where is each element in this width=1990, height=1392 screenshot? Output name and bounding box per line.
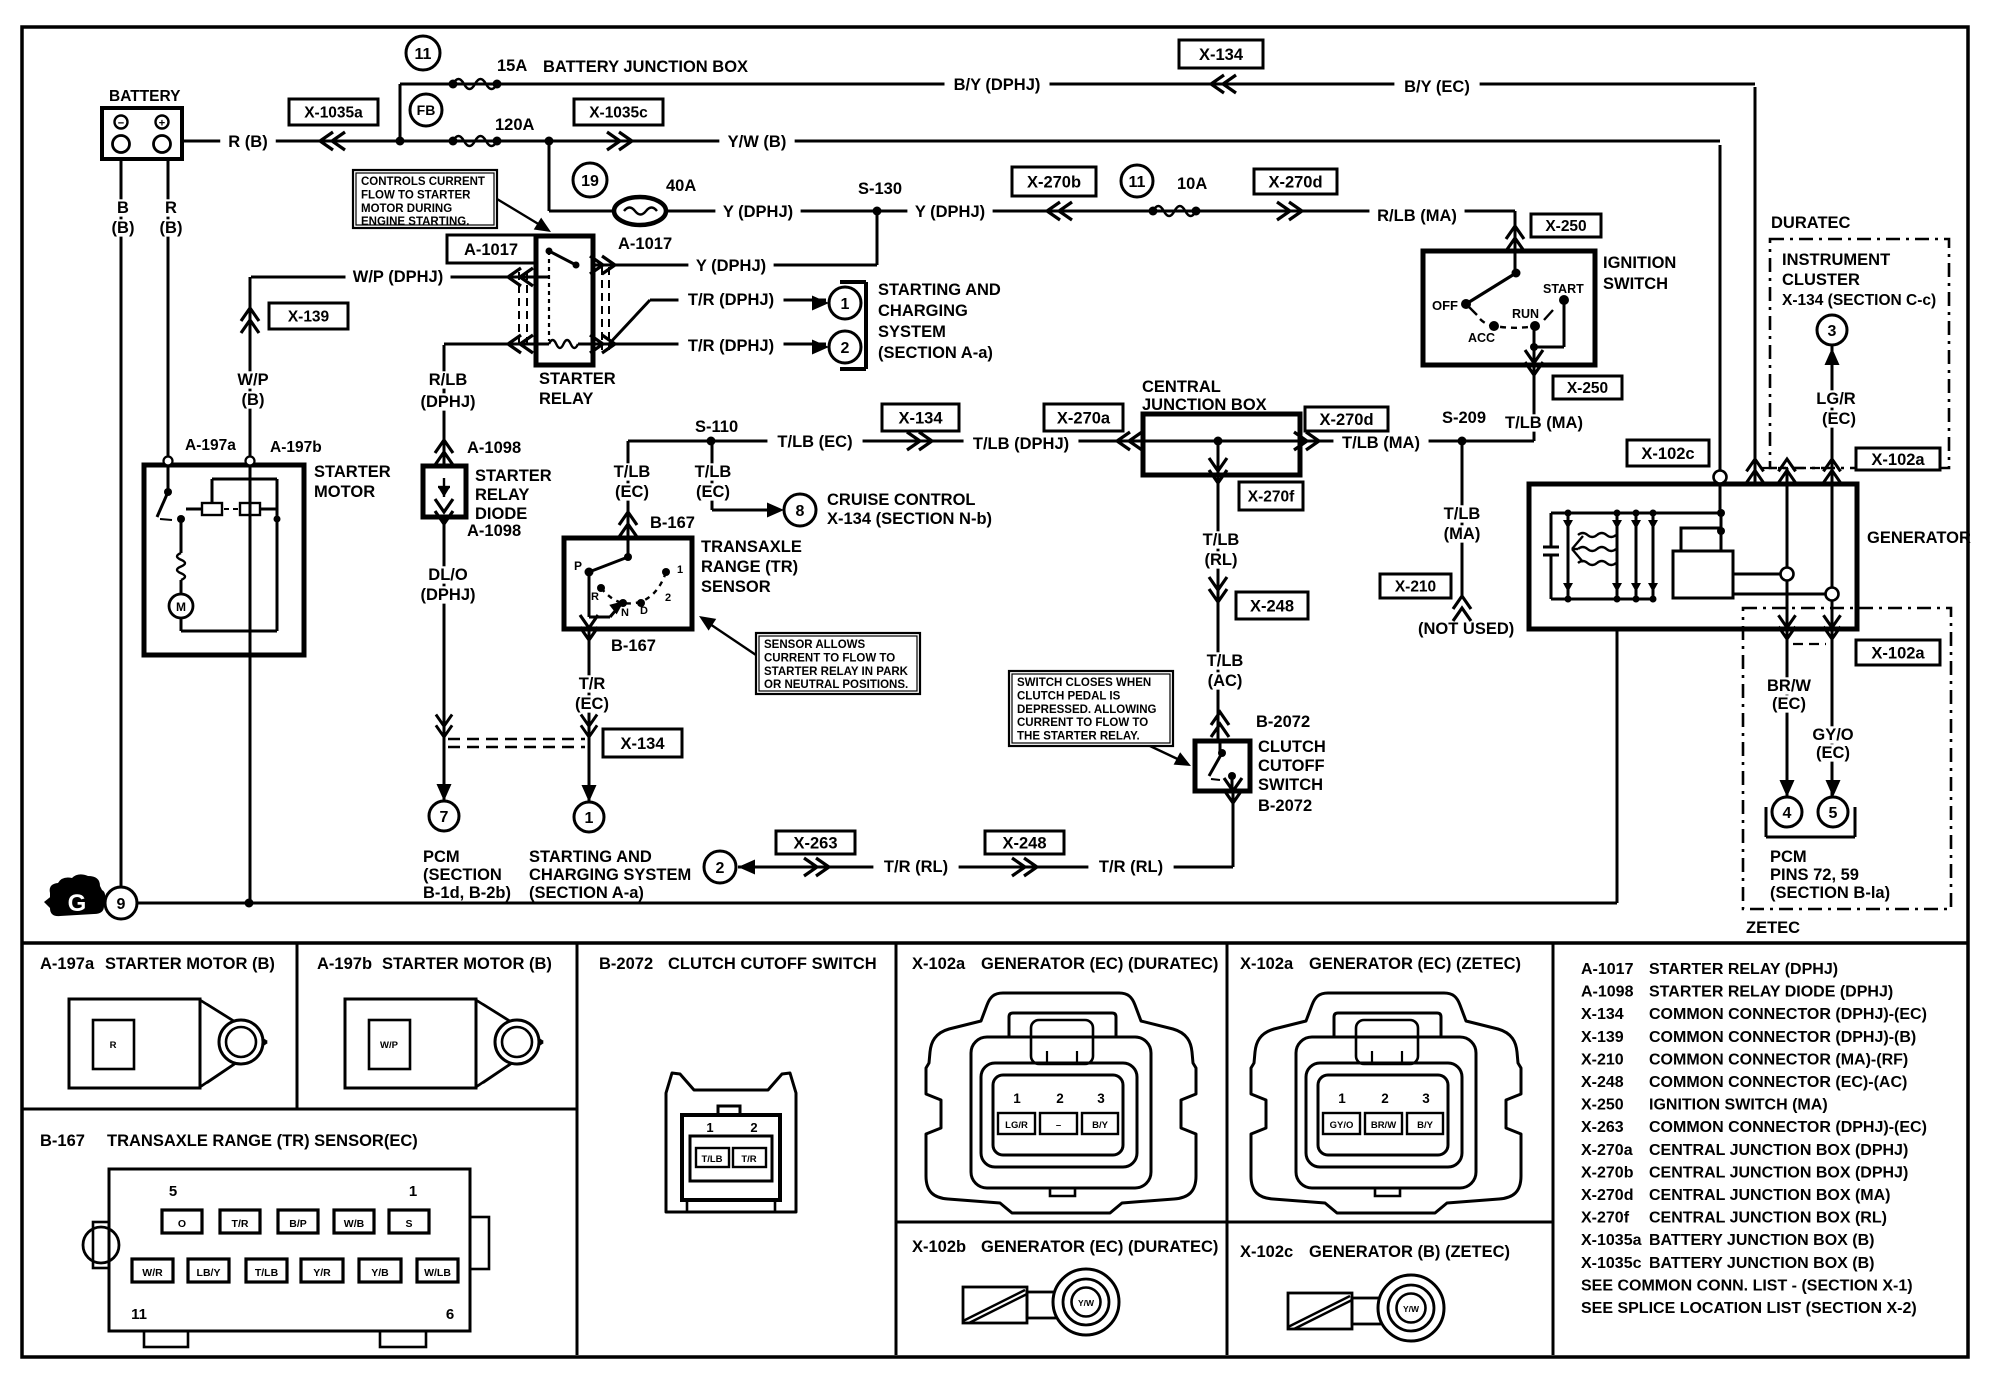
svg-text:(EC): (EC) [1772,695,1806,713]
svg-text:X-102a: X-102a [912,955,966,973]
svg-text:BR/W: BR/W [1767,677,1811,695]
svg-text:R/LB: R/LB [429,371,468,389]
svg-text:R: R [591,591,599,603]
svg-text:X-248: X-248 [1002,834,1046,852]
svg-text:7: 7 [440,809,449,826]
svg-text:CHARGING SYSTEM: CHARGING SYSTEM [529,866,691,884]
svg-text:W/B: W/B [344,1218,365,1230]
svg-text:11: 11 [415,46,432,63]
svg-text:T/LB: T/LB [255,1267,279,1279]
svg-text:B/Y: B/Y [1417,1120,1434,1131]
svg-text:Y/W: Y/W [1403,1304,1420,1314]
svg-text:(B): (B) [242,391,265,409]
svg-text:COMMON CONNECTOR (DPHJ)-(B): COMMON CONNECTOR (DPHJ)-(B) [1649,1029,1916,1046]
svg-text:B-167: B-167 [611,637,656,655]
svg-text:T/LB: T/LB [614,463,651,481]
svg-text:CLUTCH: CLUTCH [1258,738,1326,756]
svg-text:LG/R: LG/R [1816,390,1855,408]
svg-text:BATTERY JUNCTION BOX (B): BATTERY JUNCTION BOX (B) [1649,1232,1874,1249]
svg-text:X-270f: X-270f [1581,1210,1630,1227]
svg-text:3: 3 [1828,323,1837,340]
svg-text:1: 1 [585,810,594,827]
svg-text:LB/Y: LB/Y [197,1267,221,1279]
svg-text:DURATEC: DURATEC [1771,214,1851,232]
svg-text:X-263: X-263 [793,834,837,852]
svg-text:1: 1 [677,564,683,576]
svg-text:T/LB: T/LB [701,1154,722,1165]
svg-text:THE STARTER RELAY.: THE STARTER RELAY. [1017,731,1140,743]
svg-text:2: 2 [1381,1091,1389,1106]
svg-text:X-270d: X-270d [1581,1187,1633,1204]
svg-text:X-250: X-250 [1581,1097,1624,1114]
svg-text:OR NEUTRAL POSITIONS.: OR NEUTRAL POSITIONS. [764,679,908,691]
svg-text:X-248: X-248 [1581,1074,1624,1091]
svg-text:B/Y: B/Y [1092,1120,1109,1131]
svg-text:X-102c: X-102c [1641,445,1694,463]
svg-text:SEE COMMON CONN. LIST - (SECTI: SEE COMMON CONN. LIST - (SECTION X-1) [1581,1277,1913,1294]
svg-text:GY/O: GY/O [1812,726,1853,744]
svg-text:DEPRESSED. ALLOWING: DEPRESSED. ALLOWING [1017,704,1157,716]
svg-text:X-134 (SECTION N-b): X-134 (SECTION N-b) [827,510,992,528]
svg-text:T/R (RL): T/R (RL) [884,858,948,876]
svg-text:N: N [621,607,629,619]
svg-text:A-1017: A-1017 [1581,961,1634,978]
svg-text:T/R (DPHJ): T/R (DPHJ) [688,291,774,309]
svg-text:R: R [165,199,177,217]
svg-text:X-270b: X-270b [1581,1164,1634,1181]
svg-text:3: 3 [1097,1091,1105,1106]
svg-text:19: 19 [581,173,599,190]
svg-text:3: 3 [1422,1091,1430,1106]
svg-text:X-102b: X-102b [912,1238,966,1256]
svg-text:X-1035a: X-1035a [304,105,363,122]
svg-text:T/LB (DPHJ): T/LB (DPHJ) [973,435,1069,453]
svg-text:SENSOR: SENSOR [701,578,771,596]
svg-text:R/LB (MA): R/LB (MA) [1377,207,1457,225]
svg-text:ZETEC: ZETEC [1746,919,1800,937]
svg-text:A-1017: A-1017 [464,241,518,259]
svg-text:10A: 10A [1177,175,1207,193]
svg-text:BATTERY: BATTERY [109,88,181,105]
svg-text:X-102a: X-102a [1871,451,1925,469]
svg-text:A-1098: A-1098 [467,522,521,540]
svg-text:CLUSTER: CLUSTER [1782,271,1860,289]
svg-text:SENSOR ALLOWS: SENSOR ALLOWS [764,639,865,651]
svg-text:X-210: X-210 [1581,1051,1624,1068]
svg-text:A-197b: A-197b [317,955,372,973]
svg-text:X-270b: X-270b [1027,173,1081,191]
svg-text:X-134: X-134 [898,409,943,427]
svg-text:STARTER: STARTER [475,467,552,485]
svg-text:SWITCH CLOSES WHEN: SWITCH CLOSES WHEN [1017,677,1151,689]
svg-text:B-167: B-167 [650,514,695,532]
svg-text:9: 9 [117,896,126,913]
svg-text:W/P: W/P [380,1040,399,1051]
svg-text:A-1098: A-1098 [1581,984,1634,1001]
svg-text:COMMON CONNECTOR (DPHJ)-(EC): COMMON CONNECTOR (DPHJ)-(EC) [1649,1006,1927,1023]
svg-text:CENTRAL JUNCTION BOX (MA): CENTRAL JUNCTION BOX (MA) [1649,1187,1890,1204]
svg-text:(AC): (AC) [1208,672,1243,690]
svg-text:BATTERY JUNCTION BOX: BATTERY JUNCTION BOX [543,58,748,76]
svg-text:B-1d, B-2b): B-1d, B-2b) [423,884,511,902]
svg-text:1: 1 [841,296,850,313]
svg-text:BR/W: BR/W [1371,1120,1396,1131]
svg-text:T/R (RL): T/R (RL) [1099,858,1163,876]
svg-text:X-134: X-134 [1581,1006,1624,1023]
svg-text:T/R: T/R [232,1218,249,1230]
svg-text:CHARGING: CHARGING [878,302,968,320]
svg-text:A-1098: A-1098 [467,439,521,457]
svg-text:(EC): (EC) [696,483,730,501]
svg-text:S: S [405,1218,412,1230]
svg-text:CENTRAL JUNCTION BOX (DPHJ): CENTRAL JUNCTION BOX (DPHJ) [1649,1142,1908,1159]
svg-text:GENERATOR (EC) (DURATEC): GENERATOR (EC) (DURATEC) [981,1238,1218,1256]
svg-text:(EC): (EC) [615,483,649,501]
svg-text:−: − [118,118,124,130]
svg-text:2: 2 [716,860,725,877]
svg-text:1: 1 [706,1120,713,1135]
svg-text:RELAY: RELAY [475,486,529,504]
svg-text:T/LB (EC): T/LB (EC) [777,433,852,451]
svg-text:X-270a: X-270a [1057,409,1111,427]
svg-text:CUTOFF: CUTOFF [1258,757,1325,775]
svg-text:OFF: OFF [1432,298,1458,313]
svg-text:B-2072: B-2072 [599,955,653,973]
svg-text:W/P: W/P [237,371,268,389]
svg-text:T/LB: T/LB [1444,505,1481,523]
svg-text:INSTRUMENT: INSTRUMENT [1782,251,1890,269]
svg-text:SEE SPLICE LOCATION LIST (SECT: SEE SPLICE LOCATION LIST (SECTION X-2) [1581,1300,1917,1317]
svg-text:(DPHJ): (DPHJ) [420,393,475,411]
svg-text:+: + [159,118,165,130]
svg-text:BATTERY JUNCTION BOX (B): BATTERY JUNCTION BOX (B) [1649,1255,1874,1272]
svg-text:TRANSAXLE: TRANSAXLE [701,538,802,556]
svg-text:X-248: X-248 [1250,597,1294,615]
svg-text:X-270f: X-270f [1248,489,1295,506]
svg-text:RELAY: RELAY [539,390,593,408]
svg-text:2: 2 [665,592,671,604]
svg-text:CENTRAL JUNCTION BOX (DPHJ): CENTRAL JUNCTION BOX (DPHJ) [1649,1164,1908,1181]
svg-text:11: 11 [1129,174,1146,191]
svg-text:TRANSAXLE RANGE (TR) SENSOR(E: TRANSAXLE RANGE (TR) SENSOR(EC) [107,1132,418,1150]
svg-text:S-110: S-110 [695,418,738,436]
svg-text:X-263: X-263 [1581,1119,1624,1136]
svg-text:STARTER: STARTER [539,370,616,388]
svg-text:5: 5 [169,1183,177,1200]
svg-text:CURRENT TO FLOW TO: CURRENT TO FLOW TO [764,652,895,664]
svg-text:X-210: X-210 [1395,579,1436,596]
svg-text:(SECTION: (SECTION [423,866,502,884]
svg-text:P: P [574,559,582,573]
svg-text:(B): (B) [160,219,183,237]
svg-text:–: – [1056,1120,1061,1131]
svg-text:(B): (B) [112,219,135,237]
svg-text:START: START [1543,282,1584,296]
svg-text:GENERATOR (EC) (DURATEC): GENERATOR (EC) (DURATEC) [981,955,1218,973]
svg-text:CURRENT TO FLOW TO: CURRENT TO FLOW TO [1017,717,1148,729]
svg-text:COMMON CONNECTOR (EC)-(AC): COMMON CONNECTOR (EC)-(AC) [1649,1074,1907,1091]
svg-text:X-270a: X-270a [1581,1142,1633,1159]
svg-text:Y/R: Y/R [313,1267,331,1279]
svg-text:RUN: RUN [1512,307,1539,321]
svg-text:X-139: X-139 [288,309,330,326]
svg-text:M: M [176,600,186,614]
svg-text:(EC): (EC) [575,695,609,713]
svg-text:T/LB: T/LB [695,463,732,481]
svg-text:STARTER MOTOR (B): STARTER MOTOR (B) [382,955,552,973]
svg-text:2: 2 [841,340,850,357]
svg-text:STARTING AND: STARTING AND [878,281,1001,299]
svg-text:5: 5 [1829,805,1838,822]
svg-text:LG/R: LG/R [1005,1120,1028,1131]
svg-text:GY/O: GY/O [1330,1120,1354,1131]
svg-text:B: B [117,199,129,217]
svg-text:1: 1 [409,1183,417,1200]
svg-text:(SECTION A-a): (SECTION A-a) [878,344,993,362]
svg-text:40A: 40A [666,177,696,195]
svg-text:SYSTEM: SYSTEM [878,323,946,341]
svg-text:15A: 15A [497,57,527,75]
svg-text:120A: 120A [495,116,535,134]
svg-text:(SECTION A-a): (SECTION A-a) [529,884,644,902]
svg-text:1: 1 [1013,1091,1021,1106]
svg-text:1: 1 [1338,1091,1346,1106]
svg-text:(SECTION B-la): (SECTION B-la) [1770,884,1890,902]
svg-text:D: D [640,605,648,617]
svg-text:DL/O: DL/O [428,566,468,584]
svg-text:X-102a: X-102a [1871,644,1925,662]
svg-text:A-197a: A-197a [185,437,236,454]
svg-text:2: 2 [750,1120,757,1135]
svg-text:PCM: PCM [423,848,460,866]
svg-text:CENTRAL JUNCTION BOX (RL): CENTRAL JUNCTION BOX (RL) [1649,1210,1887,1227]
svg-text:CLUTCH CUTOFF SWITCH: CLUTCH CUTOFF SWITCH [668,955,877,973]
svg-text:Y (DPHJ): Y (DPHJ) [723,203,793,221]
svg-text:STARTER RELAY DIODE (DPHJ): STARTER RELAY DIODE (DPHJ) [1649,984,1893,1001]
svg-text:A-197a: A-197a [40,955,95,973]
svg-text:(EC): (EC) [1822,410,1856,428]
svg-text:B/Y (EC): B/Y (EC) [1404,78,1470,96]
svg-text:B-2072: B-2072 [1256,713,1310,731]
svg-text:SWITCH: SWITCH [1603,275,1668,293]
svg-text:ENGINE STARTING.: ENGINE STARTING. [361,216,469,228]
svg-text:FLOW TO STARTER: FLOW TO STARTER [361,189,471,201]
svg-text:11: 11 [131,1306,147,1323]
svg-text:GENERATOR: GENERATOR [1867,529,1971,547]
svg-text:MOTOR DURING: MOTOR DURING [361,203,452,215]
svg-text:B-167: B-167 [40,1132,85,1150]
svg-text:Y (DPHJ): Y (DPHJ) [915,203,985,221]
svg-text:G: G [68,890,87,917]
svg-text:(EC): (EC) [1816,744,1850,762]
svg-text:X-270d: X-270d [1268,173,1322,191]
svg-text:JUNCTION BOX: JUNCTION BOX [1142,396,1267,414]
svg-text:STARTER RELAY IN PARK: STARTER RELAY IN PARK [764,666,909,678]
svg-text:CENTRAL: CENTRAL [1142,378,1221,396]
svg-text:FB: FB [417,102,436,118]
svg-text:(MA): (MA) [1444,525,1481,543]
svg-text:STARTING AND: STARTING AND [529,848,652,866]
svg-text:X-270d: X-270d [1319,411,1373,429]
svg-text:IGNITION SWITCH (MA): IGNITION SWITCH (MA) [1649,1097,1828,1114]
svg-text:Y (DPHJ): Y (DPHJ) [696,257,766,275]
svg-text:8: 8 [796,503,805,520]
svg-text:A-197b: A-197b [270,439,322,456]
svg-text:DIODE: DIODE [475,505,527,523]
svg-text:4: 4 [1783,805,1792,822]
svg-text:B-2072: B-2072 [1258,797,1312,815]
svg-text:T/LB: T/LB [1207,652,1244,670]
svg-text:GENERATOR (B) (ZETEC): GENERATOR (B) (ZETEC) [1309,1243,1510,1261]
svg-text:X-250: X-250 [1545,218,1586,235]
svg-text:T/R: T/R [579,675,606,693]
svg-text:X-102a: X-102a [1240,955,1294,973]
svg-text:T/LB (MA): T/LB (MA) [1505,414,1583,432]
svg-text:SWITCH: SWITCH [1258,776,1323,794]
svg-text:S-130: S-130 [858,180,902,198]
svg-text:STARTER MOTOR (B): STARTER MOTOR (B) [105,955,275,973]
svg-text:X-102c: X-102c [1240,1243,1293,1261]
svg-text:T/LB: T/LB [1203,531,1240,549]
svg-text:CRUISE CONTROL: CRUISE CONTROL [827,491,976,509]
svg-text:COMMON CONNECTOR (MA)-(RF): COMMON CONNECTOR (MA)-(RF) [1649,1051,1908,1068]
svg-text:X-1035c: X-1035c [589,105,648,122]
svg-text:A-1017: A-1017 [618,235,672,253]
svg-text:X-134: X-134 [620,735,665,753]
svg-text:COMMON CONNECTOR (DPHJ)-(EC): COMMON CONNECTOR (DPHJ)-(EC) [1649,1119,1927,1136]
svg-text:CONTROLS CURRENT: CONTROLS CURRENT [361,176,485,188]
svg-text:MOTOR: MOTOR [314,483,375,501]
svg-text:W/R: W/R [142,1267,163,1279]
svg-text:T/LB (MA): T/LB (MA) [1342,434,1420,452]
svg-text:(RL): (RL) [1205,551,1238,569]
svg-text:(DPHJ): (DPHJ) [420,586,475,604]
svg-text:Y/W: Y/W [1078,1298,1095,1308]
svg-text:S-209: S-209 [1442,409,1486,427]
svg-text:2: 2 [1056,1091,1064,1106]
svg-text:X-134: X-134 [1199,46,1244,64]
svg-text:Y/B: Y/B [371,1267,389,1279]
svg-text:STARTER: STARTER [314,463,391,481]
svg-text:PINS 72, 59: PINS 72, 59 [1770,866,1859,884]
svg-text:STARTER RELAY (DPHJ): STARTER RELAY (DPHJ) [1649,961,1838,978]
svg-text:X-1035c: X-1035c [1581,1255,1642,1272]
svg-text:T/R: T/R [741,1154,756,1165]
svg-text:O: O [178,1218,186,1230]
svg-text:W/P (DPHJ): W/P (DPHJ) [353,268,443,286]
svg-text:6: 6 [446,1306,454,1323]
svg-text:CLUTCH PEDAL IS: CLUTCH PEDAL IS [1017,690,1121,702]
svg-text:T/R (DPHJ): T/R (DPHJ) [688,337,774,355]
svg-text:RANGE (TR): RANGE (TR) [701,558,798,576]
svg-text:R: R [110,1040,117,1051]
svg-text:Y/W (B): Y/W (B) [728,133,787,151]
svg-text:X-250: X-250 [1567,380,1608,397]
svg-text:GENERATOR (EC) (ZETEC): GENERATOR (EC) (ZETEC) [1309,955,1521,973]
svg-text:ACC: ACC [1468,331,1495,345]
svg-text:X-134 (SECTION C-c): X-134 (SECTION C-c) [1782,292,1936,309]
svg-text:R (B): R (B) [228,133,267,151]
svg-text:(NOT USED): (NOT USED) [1418,620,1514,638]
svg-text:W/LB: W/LB [424,1267,451,1279]
svg-text:X-139: X-139 [1581,1029,1624,1046]
svg-text:PCM: PCM [1770,848,1807,866]
svg-text:X-1035a: X-1035a [1581,1232,1642,1249]
svg-text:B/P: B/P [289,1218,307,1230]
svg-text:B/Y (DPHJ): B/Y (DPHJ) [954,76,1041,94]
svg-text:IGNITION: IGNITION [1603,254,1676,272]
